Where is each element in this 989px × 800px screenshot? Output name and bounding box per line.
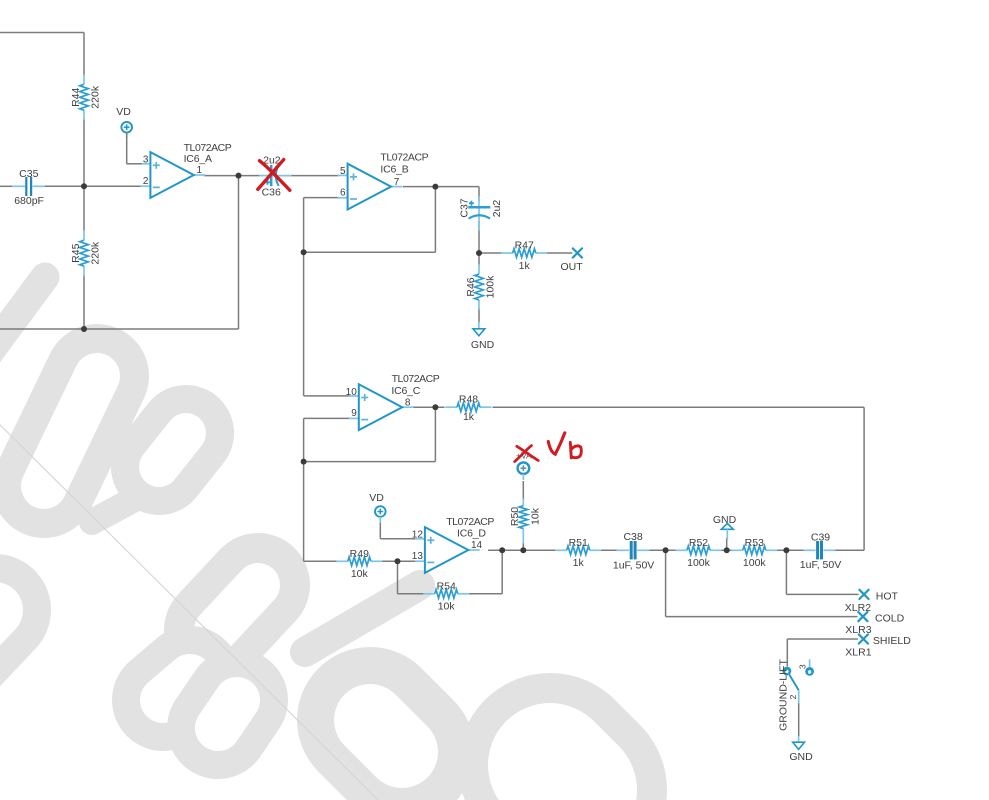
wire HOT horizontal: [786, 593, 858, 595]
resistor R53 100k: [731, 537, 777, 569]
wire R47 left: [479, 252, 502, 254]
wire bottom feedback horizontal: [0, 328, 239, 330]
junction IC6_B output node: [432, 184, 438, 190]
svg-text:100k: 100k: [743, 557, 767, 569]
svg-text:1: 1: [197, 165, 203, 176]
wire R50 bottom to output line: [522, 543, 524, 550]
wire IC6_D output to R51: [488, 549, 557, 551]
svg-text:SHIELD: SHIELD: [873, 635, 911, 647]
wire IC6_B feedback horizontal: [304, 251, 436, 253]
svg-text:1k: 1k: [463, 411, 475, 423]
svg-text:IC6_B: IC6_B: [380, 163, 408, 175]
svg-text:R51: R51: [569, 537, 588, 549]
svg-text:680pF: 680pF: [14, 195, 44, 207]
svg-text:TL072ACP: TL072ACP: [446, 516, 494, 528]
wire C38 to R52: [648, 549, 677, 551]
wire pin 9 down to feedback C: [303, 418, 305, 461]
svg-text:100k: 100k: [687, 557, 711, 569]
wire IC6_B pin 6: [304, 197, 339, 199]
switch GROUND-LIFT: [777, 659, 814, 731]
svg-text:12: 12: [412, 530, 424, 541]
wire pin 6 down to feedback: [303, 198, 305, 253]
svg-text:C39: C39: [811, 532, 830, 544]
wire IC6_C feedback horizontal: [304, 461, 436, 463]
capacitor C37 2u2 (polarized): [459, 196, 503, 231]
svg-text:10k: 10k: [351, 568, 369, 580]
pin flag OUT: [561, 248, 584, 273]
wire R54 loop up to output node: [501, 550, 503, 594]
svg-text:R50: R50: [509, 507, 521, 526]
svg-text:14: 14: [471, 540, 483, 551]
power flag Vb node (crossed out +VA): [516, 450, 532, 480]
svg-text:2u2: 2u2: [491, 200, 503, 218]
wire R47 right to OUT: [547, 252, 572, 254]
svg-text:1uF, 50V: 1uF, 50V: [613, 560, 654, 572]
svg-text:7: 7: [394, 177, 400, 188]
svg-text:IC6_D: IC6_D: [457, 528, 486, 540]
wire node down to R49 line: [303, 462, 305, 562]
svg-text:HOT: HOT: [876, 590, 899, 602]
wire IC6_B feedback vertical: [434, 187, 436, 253]
svg-text:GND: GND: [713, 514, 737, 526]
wire R54 right to output: [468, 593, 502, 595]
svg-text:2: 2: [788, 694, 798, 699]
junction IC6_C feedback node: [301, 459, 307, 465]
wire COLD vertical: [665, 550, 667, 616]
wire C39 to right edge vertical: [834, 549, 864, 551]
svg-text:OUT: OUT: [561, 261, 584, 273]
power flag VD at IC6_D: [369, 492, 385, 523]
svg-text:C36: C36: [262, 186, 281, 198]
op-amp IC6_C (TL072ACP): [346, 373, 440, 430]
svg-text:R53: R53: [745, 537, 764, 549]
wire top-left horizontal: [0, 32, 84, 34]
svg-text:3: 3: [143, 155, 149, 166]
svg-text:6: 6: [340, 188, 346, 199]
svg-text:220k: 220k: [90, 85, 102, 109]
wire R48 to right edge: [493, 406, 865, 408]
svg-text:R52: R52: [689, 537, 708, 549]
resistor R46 100k: [465, 264, 497, 310]
svg-text:220k: 220k: [90, 241, 102, 265]
svg-text:1k: 1k: [573, 557, 585, 569]
wire GND stub above line: [726, 538, 728, 550]
svg-text:GND: GND: [789, 751, 813, 763]
svg-text:IC6_A: IC6_A: [184, 153, 212, 165]
wire R45 to bottom feedback: [83, 275, 85, 329]
wire R52 to R53 / GND node: [721, 549, 733, 551]
wire R46 bottom to GND: [478, 308, 480, 323]
resistor R45 220k: [70, 230, 102, 276]
junction C37/R46/R47 node: [476, 250, 482, 256]
pin flag HOT (XLR2): [845, 590, 899, 614]
wire R53 to C39: [776, 549, 805, 551]
resistor R54 10k: [423, 580, 469, 612]
svg-text:XLR1: XLR1: [845, 646, 871, 658]
svg-text:10: 10: [346, 387, 358, 398]
svg-text:1uF, 50V: 1uF, 50V: [800, 559, 841, 571]
power flag VD at IC6_A: [116, 106, 132, 138]
wire IC6_C pin 10 horizontal: [304, 395, 350, 397]
wire R54 left lead wire: [398, 593, 425, 595]
svg-text:13: 13: [412, 551, 424, 562]
resistor R52 100k: [676, 537, 722, 569]
wire IC6_C feedback vertical: [434, 407, 436, 461]
wire HOT vertical: [785, 550, 787, 594]
svg-text:R49: R49: [350, 548, 369, 560]
svg-text:COLD: COLD: [875, 613, 905, 625]
junction HOT tap node: [783, 547, 789, 553]
ground GND below R46: [471, 322, 495, 351]
wire R54 loop down: [397, 561, 399, 594]
resistor R47 1k: [501, 239, 547, 272]
junction IC6_A output node: [236, 173, 242, 179]
junction IC6_B feedback node: [301, 249, 307, 255]
svg-text:C38: C38: [623, 531, 642, 543]
resistor R48 1k: [445, 393, 491, 423]
red handwritten Vb annotation: [548, 433, 581, 458]
svg-text:GND: GND: [471, 339, 495, 351]
junction GND tap node: [724, 547, 730, 553]
wire input node to R45: [83, 186, 85, 231]
wire feedback vertical to IC6_A output: [238, 176, 240, 329]
wire VD to IC6_D pin 12 vertical: [379, 516, 381, 539]
pin flag COLD (XLR3): [845, 612, 904, 636]
wire switch pin 2 to GND: [798, 703, 800, 737]
op-amp IC6_D (TL072ACP): [412, 516, 495, 573]
capacitor C36 2u2 (crossed out): [259, 155, 292, 199]
svg-text:2: 2: [143, 176, 149, 187]
resistor R51 1k: [555, 537, 601, 569]
svg-text:R45: R45: [70, 243, 82, 262]
capacitor C38 1uF 50V: [613, 531, 654, 571]
wire C35 to IC6_A pin 2: [44, 185, 142, 187]
wire R44 bottom to input node: [83, 119, 85, 186]
svg-text:R44: R44: [70, 88, 82, 107]
svg-text:10k: 10k: [438, 601, 456, 613]
watermark: [0, 277, 575, 800]
op-amp IC6_A (TL072ACP): [140, 142, 231, 198]
resistor R44 220k: [70, 74, 102, 120]
svg-text:9: 9: [351, 408, 357, 419]
wire R46 top: [478, 253, 480, 266]
wire input left of C35: [0, 185, 13, 187]
wire Vb node to R50: [522, 481, 524, 501]
junction bottom feedback: [81, 326, 87, 332]
junction R50 node: [520, 547, 526, 553]
wire to R49 left: [304, 560, 338, 562]
wire right edge vertical down to C39: [863, 407, 865, 550]
wire VD down to pin 3: [126, 133, 128, 164]
svg-text:VD: VD: [116, 106, 131, 118]
junction input node: [81, 183, 87, 189]
capacitor C35 680pF: [12, 168, 45, 207]
wire COLD horizontal: [666, 616, 858, 618]
junction IC6_D output node: [499, 547, 505, 553]
pin flag SHIELD (XLR1): [845, 634, 911, 658]
svg-text:VD: VD: [369, 492, 384, 504]
resistor R50 10k: [509, 499, 541, 544]
resistor R49 10k: [336, 548, 382, 580]
wire C37 to R47 node: [478, 221, 480, 253]
wire C36 to IC6_B pin 5: [291, 175, 339, 177]
svg-text:TL072ACP: TL072ACP: [380, 151, 428, 163]
svg-text:R46: R46: [465, 277, 477, 296]
wire IC6_A output to C36: [204, 175, 261, 177]
red X annotation over +VA label: [515, 446, 539, 462]
op-amp IC6_B (TL072ACP): [338, 151, 429, 209]
svg-text:IC6_C: IC6_C: [391, 385, 420, 397]
svg-text:R47: R47: [515, 239, 534, 251]
ground GND above R52/R53 node: [713, 514, 737, 540]
svg-text:3: 3: [797, 664, 807, 669]
svg-text:1k: 1k: [519, 260, 531, 272]
svg-text:10k: 10k: [529, 507, 541, 525]
wire R44 top vertical: [83, 33, 85, 77]
wire corner down to C37: [478, 187, 480, 201]
wire VD to IC6_D pin 12 horizontal: [380, 538, 416, 540]
svg-text:100k: 100k: [485, 275, 497, 299]
wire IC6_C output to R48: [413, 406, 445, 408]
wire R51 to C38: [600, 549, 619, 551]
svg-text:5: 5: [340, 166, 346, 177]
ground GND below switch: [789, 736, 813, 763]
svg-text:C37: C37: [459, 198, 471, 217]
svg-text:8: 8: [405, 397, 411, 408]
junction IC6_C output node: [432, 404, 438, 410]
wire IC6_C pin 9 horizontal: [304, 417, 350, 419]
junction R49/R54/pin13 node: [395, 558, 401, 564]
wire R49 right to IC6_D pin 13: [382, 560, 417, 562]
wire IC6_B output to C37 corner: [403, 186, 479, 188]
capacitor C39 1uF 50V: [800, 532, 841, 571]
svg-text:R48: R48: [459, 393, 478, 405]
wire SHIELD down to switch: [786, 639, 788, 666]
wire SHIELD horizontal: [787, 638, 858, 640]
red X annotation over C36: [258, 160, 290, 191]
junction COLD tap node: [663, 547, 669, 553]
svg-text:C35: C35: [19, 168, 38, 180]
svg-text:TL072ACP: TL072ACP: [392, 373, 440, 385]
svg-text:R54: R54: [437, 580, 456, 592]
wire node to IC6_C pin 10: [303, 252, 305, 396]
